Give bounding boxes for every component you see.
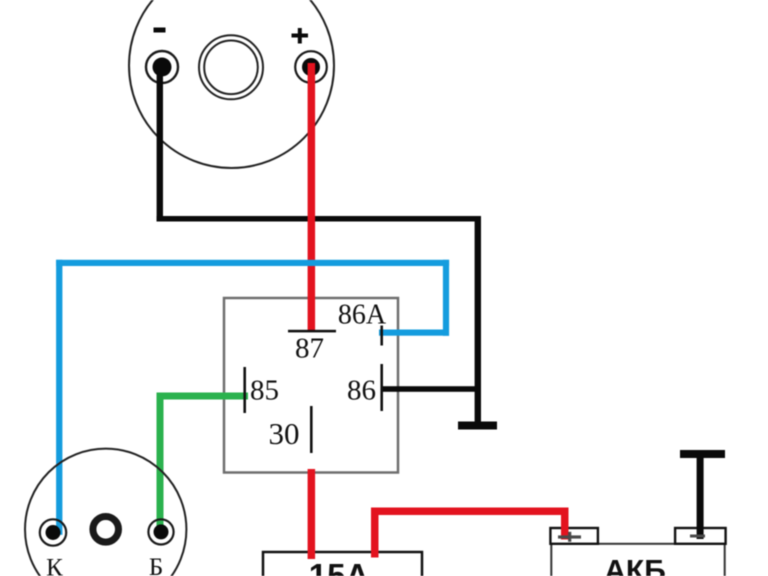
wire black: vertical down to ground (475, 216, 481, 423)
gauge negative terminal ring (146, 51, 178, 83)
gauge positive terminal ring (295, 51, 327, 83)
wire blue: long horizontal run (56, 260, 449, 266)
svg-text:86: 86 (347, 375, 376, 407)
wire green: vertical down to terminal Б (157, 393, 164, 532)
wire red: fuse up-stub to horizontal run (371, 508, 379, 558)
wire black: horizontal run to right (157, 216, 481, 222)
terminal K pin (46, 525, 61, 540)
wire blue: vertical riser (443, 260, 449, 336)
svg-text:АКБ: АКБ (604, 555, 666, 576)
terminal Б pin (154, 524, 169, 539)
svg-text:30: 30 (269, 416, 300, 451)
distributor body (bottom-left circle) (25, 449, 186, 576)
battery - terminal box (675, 528, 726, 544)
relay K1 body (224, 298, 398, 473)
svg-text:87: 87 (295, 333, 324, 365)
battery + terminal box (550, 528, 598, 544)
terminal Б ring (148, 519, 173, 544)
relay pin 85 lead (243, 367, 246, 413)
distributor hub ring (93, 517, 119, 543)
battery - mark (690, 535, 705, 538)
wire black: battery minus up to chassis bar (697, 454, 704, 539)
wire green: horizontal into relay pin 85 (157, 393, 249, 400)
terminal K ring (40, 519, 66, 545)
gauge negative terminal pin (153, 58, 172, 77)
relay pin 30 lead (310, 406, 313, 453)
svg-text:85: 85 (250, 375, 279, 407)
ground chassis bar (relay side) (458, 422, 497, 430)
wire blue: down to breaker terminal K (56, 260, 62, 535)
label + (gauge positive) (292, 28, 309, 44)
wire red: relay pin 30 down to fuse (308, 469, 316, 559)
ground chassis bar (battery side) (680, 450, 725, 458)
gauge hub outer ring (199, 35, 263, 99)
relay pin 87 tick (288, 330, 336, 333)
wire red: horizontal run to battery (371, 508, 569, 516)
fuse F1 box (263, 552, 422, 576)
battery + mark (558, 532, 581, 542)
svg-text:86А: 86А (338, 300, 387, 331)
battery body (551, 544, 724, 576)
wire black: gauge negative down (157, 67, 163, 222)
svg-text:15А: 15А (309, 557, 370, 576)
svg-text:Б: Б (149, 554, 163, 576)
wire red: down into battery + terminal (561, 508, 569, 540)
svg-text:К: К (46, 555, 63, 576)
label - (gauge negative) (154, 28, 166, 33)
gauge hub inner ring (204, 41, 258, 95)
gauge positive terminal pin (302, 58, 320, 76)
gauge body (top device circle) (129, 0, 334, 168)
wire red: gauge positive down to relay pin 87 (308, 63, 316, 331)
relay pin 86A lead (380, 326, 383, 346)
relay pin 86 lead (380, 364, 383, 411)
wire blue: stub from relay pin 86A (379, 330, 449, 336)
wire black: relay pin 86 to ground junction (381, 386, 481, 392)
